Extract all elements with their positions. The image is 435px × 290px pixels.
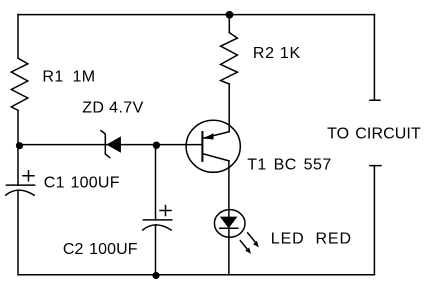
wire left rail top xyxy=(17,15,19,59)
LED triangle xyxy=(220,217,238,229)
LED arrow 1 head xyxy=(253,241,259,247)
LED light arrow 2 xyxy=(240,241,247,250)
LED circle xyxy=(214,210,245,238)
wire left rail middle xyxy=(17,110,19,185)
wire right upper terminal xyxy=(370,15,380,101)
resistor R1 xyxy=(11,58,28,110)
svg-text:C2 100UF: C2 100UF xyxy=(63,241,138,258)
wire collector/LED vertical xyxy=(228,161,230,275)
transistor T1 base bar xyxy=(201,132,203,161)
transistor T1 collector diagonal xyxy=(202,154,228,161)
resistor R2 xyxy=(221,33,238,85)
capacitor C1 plates xyxy=(6,185,35,195)
svg-text:TO CIRCUIT: TO CIRCUIT xyxy=(327,126,421,143)
node zener-C2 junction xyxy=(153,142,160,149)
svg-text:R2 1K: R2 1K xyxy=(253,45,301,62)
wire R2 top lead xyxy=(228,15,230,33)
wire C2 branch from zener node xyxy=(155,145,157,220)
svg-text:ZD 4.7V: ZD 4.7V xyxy=(82,99,144,116)
zener diode ZD triangle xyxy=(106,136,121,152)
svg-text:R1 1M: R1 1M xyxy=(42,69,95,86)
wire top rail xyxy=(18,14,374,16)
wire bottom rail xyxy=(18,274,375,276)
wire zener/base horizontal xyxy=(18,144,202,146)
wire left rail bottom xyxy=(17,191,19,275)
LED light arrow 1 xyxy=(248,233,256,242)
capacitor C2 plus sign xyxy=(160,206,171,216)
wire C2 bottom xyxy=(155,225,157,275)
LED arrow 2 head xyxy=(245,248,251,254)
capacitor C2 plates xyxy=(143,220,172,230)
LED cathode bar xyxy=(220,227,238,229)
transistor T1 circle xyxy=(186,120,240,172)
svg-text:C1 100UF: C1 100UF xyxy=(44,174,120,191)
wire right lower terminal xyxy=(370,166,381,275)
svg-text:LED RED: LED RED xyxy=(271,231,352,248)
transistor T1 emitter arrowhead xyxy=(203,133,214,139)
transistor T1 emitter diagonal xyxy=(203,132,230,139)
wire emitter vertical xyxy=(228,84,230,132)
node left junction xyxy=(16,142,23,149)
svg-text:T1 BC 557: T1 BC 557 xyxy=(247,157,332,174)
zener diode ZD cathode bar xyxy=(101,131,110,158)
node bottom junction xyxy=(152,272,159,279)
node top junction xyxy=(226,11,234,19)
capacitor C1 plus sign xyxy=(23,171,34,181)
